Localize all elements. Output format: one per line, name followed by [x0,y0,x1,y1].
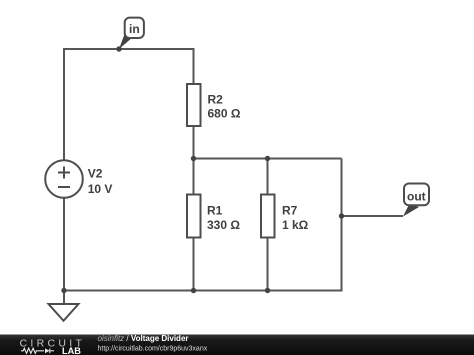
svg-text:1 kΩ: 1 kΩ [282,218,309,232]
svg-text:LAB: LAB [62,346,81,355]
svg-text:R2: R2 [208,93,224,107]
svg-text:R1: R1 [207,204,223,218]
svg-text:http://circuitlab.com/cbr9p6uv: http://circuitlab.com/cbr9p6uv3xanx [98,345,208,352]
svg-text:V2: V2 [88,167,103,181]
svg-text:680 Ω: 680 Ω [208,107,241,121]
svg-text:330 Ω: 330 Ω [207,218,240,232]
svg-text:in: in [129,22,140,36]
svg-text:10 V: 10 V [88,182,113,196]
svg-text:R7: R7 [282,204,298,218]
svg-text:oisinfitz / Voltage Divider: oisinfitz / Voltage Divider [98,334,189,343]
svg-text:out: out [407,190,426,204]
